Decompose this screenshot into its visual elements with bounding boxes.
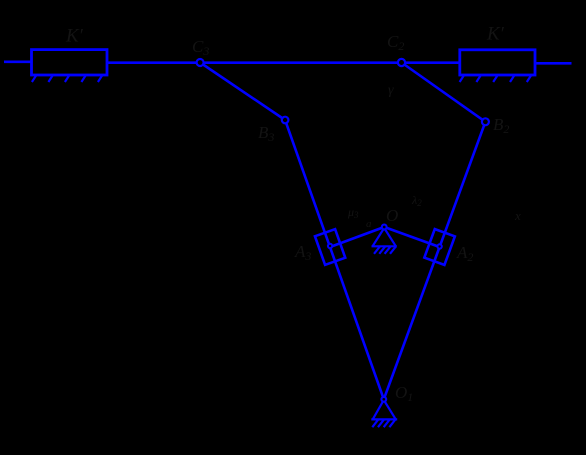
link O-A3 (330, 227, 384, 247)
fixed pivot O (372, 228, 397, 254)
svg-text:C2: C2 (387, 32, 404, 53)
joint B3 (282, 117, 289, 124)
svg-text:x: x (514, 208, 521, 223)
svg-text:μ3: μ3 (347, 205, 359, 220)
svg-text:K′: K′ (486, 24, 505, 45)
link C2-B2 (402, 63, 486, 122)
link B3-O1 through slider A3 (285, 120, 384, 399)
slider box A2 (424, 229, 455, 265)
link O-A2 (384, 227, 439, 247)
svg-text:A2: A2 (456, 243, 473, 264)
pin A3 (328, 244, 332, 248)
pin A2 (437, 244, 441, 248)
svg-text:C3: C3 (192, 37, 209, 58)
wire guide right stub (536, 62, 572, 65)
svg-text:O1: O1 (395, 383, 413, 404)
svg-text:O: O (386, 206, 398, 225)
svg-text:λ2: λ2 (411, 193, 422, 208)
svg-text:A3: A3 (294, 242, 311, 263)
svg-text:a: a (366, 218, 372, 230)
wire guide mid segment (107, 61, 460, 64)
link C3-B3 (200, 63, 285, 121)
hatching under right block (460, 75, 532, 82)
link B2-O1 through slider A2 (384, 122, 486, 400)
slider block K' left (32, 50, 108, 75)
svg-text:B2: B2 (493, 115, 509, 136)
joint C2 (398, 59, 405, 66)
svg-text:γ: γ (388, 83, 394, 98)
wire guide left stub (4, 60, 32, 63)
hatching under left block (32, 75, 103, 82)
svg-text:B3: B3 (258, 123, 274, 144)
fixed pivot O1 (371, 400, 397, 427)
pivot O pin (382, 225, 387, 230)
joint B2 (482, 118, 489, 125)
pivot O1 pin (381, 397, 386, 402)
joint C3 (197, 59, 204, 66)
slider block K' right (460, 50, 535, 75)
svg-text:K′: K′ (65, 26, 84, 47)
slider box A3 (315, 229, 345, 265)
